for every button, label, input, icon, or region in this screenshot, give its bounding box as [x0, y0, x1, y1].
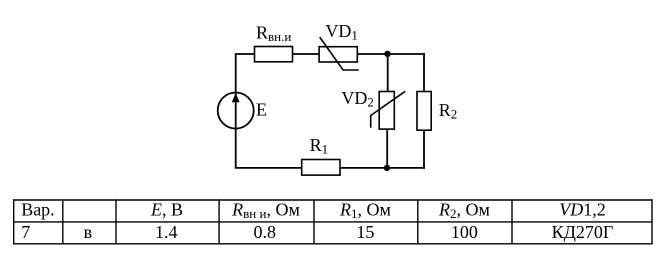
table col divider 6	[511, 199, 513, 244]
wire right vertical lower	[423, 130, 425, 169]
svg-text:100: 100	[451, 222, 478, 242]
svg-text:VD1: VD1	[325, 21, 358, 43]
wire top: Rvn box to VD1 box	[292, 53, 320, 55]
wire bottom: left to R1 box	[235, 167, 302, 169]
source E circle	[218, 93, 254, 129]
wire VD2 branch upper	[387, 54, 389, 92]
svg-text:в: в	[84, 222, 93, 242]
table grid	[13, 199, 653, 244]
svg-text:Rвн и, Ом: Rвн и, Ом	[231, 199, 300, 221]
table col divider 5	[417, 199, 419, 244]
wire top: VD1 to right corner	[357, 53, 425, 55]
varistor VD1 diagonal stroke	[320, 37, 359, 70]
node junction top	[384, 51, 390, 57]
svg-text:R1: R1	[310, 135, 329, 157]
svg-text:15: 15	[356, 222, 374, 242]
svg-text:E: E	[256, 100, 267, 120]
resistor R2 box	[417, 92, 431, 131]
svg-text:Rвн.и: Rвн.и	[256, 22, 291, 44]
svg-text:КД270Г: КД270Г	[552, 222, 614, 242]
table border right	[651, 199, 653, 244]
node junction bottom	[384, 165, 390, 171]
varistor VD1 box	[319, 47, 357, 62]
varistor VD2 box	[379, 92, 394, 130]
varistor VD2 diagonal stroke	[371, 91, 406, 128]
table col divider 3	[218, 199, 220, 244]
svg-text:0.8: 0.8	[254, 222, 277, 242]
svg-text:1.4: 1.4	[155, 222, 178, 242]
svg-text:Вар.: Вар.	[21, 199, 55, 219]
resistor R1 box	[302, 160, 340, 176]
svg-text:R1, Ом: R1, Ом	[339, 199, 391, 221]
wire left vertical	[235, 54, 237, 168]
table col divider 1	[62, 199, 64, 244]
table col divider 4	[313, 199, 315, 244]
table border left	[13, 199, 15, 244]
svg-text:VD2: VD2	[341, 88, 374, 110]
svg-text:E, В: E, В	[150, 199, 183, 219]
table border top	[13, 199, 653, 201]
svg-text:R2, Ом: R2, Ом	[438, 199, 490, 221]
wire top: left to Rvn box	[235, 53, 255, 55]
wire VD2 branch lower	[386, 129, 388, 168]
svg-text:R2: R2	[439, 100, 458, 122]
table row divider	[13, 221, 653, 223]
wire bottom: R1 box to right corner	[340, 167, 426, 169]
svg-text:VD1,2: VD1,2	[559, 199, 606, 219]
table border bottom	[13, 243, 653, 245]
wire right vertical upper	[423, 53, 425, 92]
table col divider 2	[115, 199, 117, 244]
source E arrowhead	[232, 93, 240, 102]
resistor Rvn.i box	[255, 47, 293, 62]
svg-text:7: 7	[21, 222, 30, 242]
